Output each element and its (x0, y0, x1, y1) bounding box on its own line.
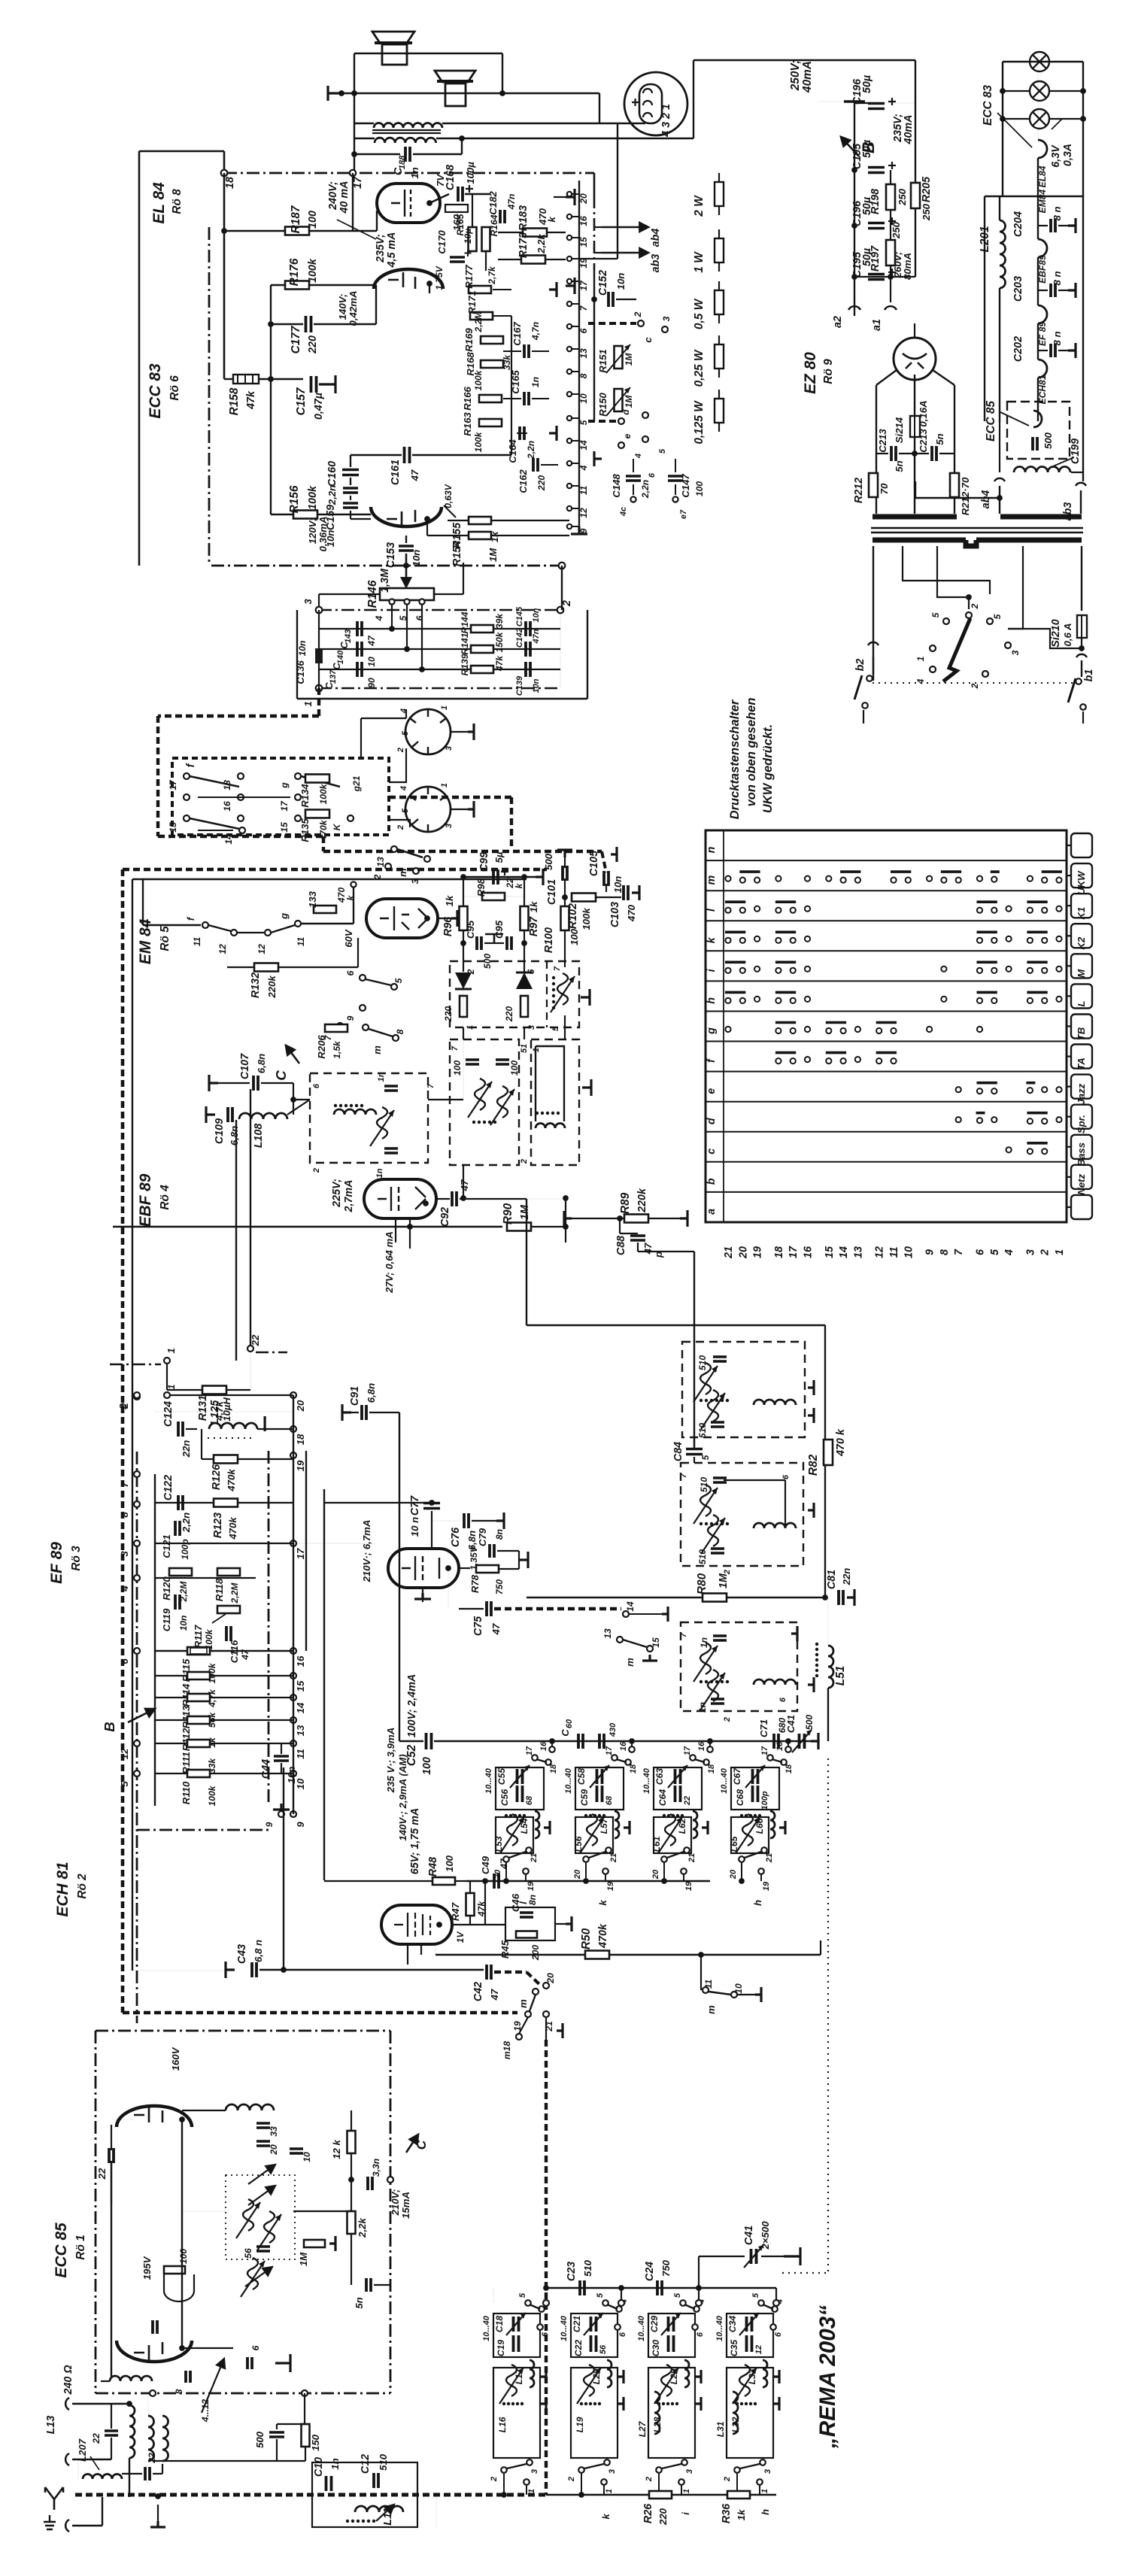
svg-text:13: 13 (295, 1725, 306, 1736)
svg-text:22n: 22n (181, 1440, 192, 1458)
svg-text:h: h (706, 997, 718, 1004)
capacitor C177 220 (306, 316, 311, 332)
wire (167, 1389, 202, 1391)
svg-text:m18: m18 (502, 2041, 512, 2059)
wire (354, 53, 502, 54)
wire (211, 1773, 293, 1774)
wire (1049, 90, 1083, 92)
resistor R126 470k (214, 1455, 238, 1464)
contact i19 (754, 966, 760, 972)
svg-text:195V: 195V (141, 2256, 153, 2280)
contact 2 (134, 1392, 140, 1398)
contact 4 selector (930, 666, 936, 672)
trimmer arrow (245, 2267, 272, 2286)
svg-text:100: 100 (178, 2249, 189, 2264)
svg-text:13: 13 (578, 348, 589, 359)
ground (414, 1593, 431, 1599)
box oscillator lower L62 (654, 1817, 691, 1853)
node (351, 151, 357, 157)
pin stub (569, 417, 579, 419)
svg-text:Drucktastenschalter: Drucktastenschalter (728, 699, 742, 819)
selector lever (943, 618, 970, 681)
svg-text:14: 14 (578, 440, 589, 451)
svg-text:Rö 3: Rö 3 (70, 1546, 83, 1571)
svg-text:220: 220 (443, 1006, 454, 1022)
tube socket 4321 (624, 72, 687, 135)
capacitor grid b (153, 2320, 157, 2334)
wire dashed gang right (545, 2040, 548, 2495)
box discriminator left (450, 1039, 519, 1165)
svg-text:UKW: UKW (1076, 870, 1087, 895)
ground (468, 801, 474, 818)
arrow C down (286, 1045, 299, 1063)
capacitor C84 (686, 1449, 703, 1455)
switch lever (763, 2304, 773, 2309)
inductor ratio coil upper (557, 973, 568, 1005)
contact 9 (360, 1005, 366, 1011)
svg-text:R164: R164 (489, 214, 499, 236)
switch lever (709, 1992, 731, 1995)
svg-text:10: 10 (302, 2152, 312, 2162)
inductor L125 10uH (209, 1423, 257, 1429)
svg-text:1n: 1n (699, 1637, 709, 1648)
wire bottom bus (75, 2493, 546, 2497)
inductor FM IF 2a (700, 1485, 711, 1516)
svg-text:250: 250 (921, 203, 932, 221)
svg-text:14: 14 (295, 1702, 306, 1713)
contact 4 b2 (618, 2300, 624, 2306)
svg-text:100p: 100p (760, 1791, 769, 1810)
switch lever (366, 979, 391, 985)
svg-text:39k: 39k (494, 613, 505, 629)
capacitor C204 8n (1051, 219, 1055, 232)
svg-text:21: 21 (723, 1246, 735, 1259)
contact 5b selector (987, 618, 993, 624)
wire to FM IF (693, 1252, 695, 1448)
svg-text:10...40: 10...40 (482, 2315, 491, 2341)
svg-text:140V·; 2,9mA (AM): 140V·; 2,9mA (AM) (397, 1754, 408, 1840)
ground (226, 1962, 235, 1978)
svg-text:20: 20 (737, 1246, 749, 1259)
contact 2m (385, 863, 391, 869)
svg-text:K: K (332, 823, 342, 830)
matrix row line (706, 1041, 1067, 1042)
svg-text:K2: K2 (1076, 936, 1087, 950)
wire (463, 1165, 464, 1198)
svg-text:R45: R45 (499, 1940, 511, 1959)
svg-text:i: i (680, 2512, 691, 2515)
contact 5 (680, 2300, 686, 2306)
resistor 150 (302, 2424, 310, 2447)
capacitor C67 (753, 1769, 758, 1784)
wire (459, 1608, 484, 1610)
svg-text:C124: C124 (162, 1401, 175, 1427)
wire stub (741, 1862, 742, 1881)
svg-text:40mA: 40mA (903, 115, 915, 145)
capacitor C41 2x500 (751, 2249, 757, 2264)
svg-text:C29: C29 (649, 2316, 660, 2332)
contact l3-2 (1027, 908, 1033, 913)
svg-text:47: 47 (499, 1858, 509, 1870)
wire (1082, 712, 1084, 724)
wire (389, 796, 511, 799)
wire (596, 897, 621, 898)
wire (890, 265, 891, 277)
contact 4 b3 (696, 2300, 702, 2306)
contact c3-2 (1027, 1148, 1033, 1154)
svg-text:100k: 100k (581, 908, 592, 930)
inductor L61 (665, 1814, 675, 1846)
coupling dots (700, 1680, 703, 1683)
svg-text:R173: R173 (517, 232, 530, 258)
svg-text:4...12: 4...12 (200, 2399, 211, 2423)
wire (350, 511, 351, 519)
resistor R154 1M (469, 532, 491, 539)
resistor R36 1k (727, 2491, 750, 2499)
svg-text:L31: L31 (715, 2421, 726, 2437)
svg-text:4: 4 (119, 1585, 130, 1592)
contact 18 (703, 1759, 709, 1765)
label box tick (1067, 845, 1071, 846)
svg-text:220k: 220k (636, 1188, 648, 1213)
contact tap 4 (389, 599, 394, 604)
wire (167, 1394, 293, 1396)
wire (939, 453, 954, 454)
leader (1000, 412, 1029, 426)
wire module border right (268, 1451, 270, 1806)
contact i8 (941, 966, 946, 972)
svg-text:2,2k: 2,2k (357, 2218, 368, 2238)
box divider (546, 961, 548, 1027)
contact k3-2 (1027, 938, 1033, 943)
plus (888, 217, 896, 225)
svg-text:a1: a1 (871, 319, 883, 331)
contact mains a (866, 675, 873, 681)
svg-text:6: 6 (975, 1249, 987, 1255)
svg-text:56: 56 (243, 2248, 253, 2259)
wire (452, 1924, 485, 1925)
svg-text:5: 5 (596, 2292, 605, 2298)
pin stub (569, 526, 579, 527)
contact h6-5 (977, 998, 982, 1003)
ground (1068, 218, 1076, 233)
wire (376, 211, 378, 231)
wire (737, 1994, 755, 1995)
svg-text:5: 5 (518, 2292, 527, 2298)
svg-text:C67: C67 (732, 1767, 742, 1785)
svg-text:Rö 8: Rö 8 (171, 189, 184, 214)
svg-text:100p: 100p (180, 1539, 190, 1560)
svg-text:150: 150 (310, 2434, 321, 2451)
svg-text:C63: C63 (654, 1768, 665, 1785)
svg-text:C99: C99 (478, 852, 490, 872)
wire (277, 2423, 305, 2425)
wire AVC 2 (527, 1597, 825, 1598)
wire (1080, 490, 1082, 514)
svg-text:15: 15 (279, 822, 290, 833)
contact (557, 607, 564, 614)
wire (564, 1015, 566, 1039)
coupling dots (552, 976, 555, 979)
leader (212, 1614, 226, 1623)
contact 1 (757, 2479, 763, 2485)
tube 4321 inner (639, 84, 662, 123)
wire (541, 464, 558, 466)
svg-text:20: 20 (651, 1869, 660, 1880)
svg-text:1: 1 (166, 1384, 177, 1389)
capacitor C137 (357, 662, 362, 677)
wire (111, 2161, 112, 2377)
inductor bumps (536, 1124, 565, 1128)
wire (351, 2153, 352, 2211)
resistor 100 (164, 2266, 185, 2274)
svg-text:240 Ω: 240 Ω (62, 2365, 74, 2395)
wire row (319, 648, 560, 650)
capacitor C12 510 (374, 2473, 378, 2488)
contact pin 17 (567, 279, 572, 284)
svg-text:137: 137 (329, 669, 338, 684)
wire (462, 138, 693, 139)
capacitor C122 2,2n (178, 1495, 183, 1510)
contact m13 (391, 846, 397, 852)
wire stub (709, 1741, 711, 1746)
contact e7 (672, 496, 678, 502)
wire (412, 454, 511, 456)
label box row g (1071, 1015, 1092, 1039)
wire (314, 323, 376, 325)
capacitor C68 (753, 1786, 758, 1802)
svg-text:TB: TB (1076, 1027, 1087, 1040)
tube ECC83b electrodes (387, 510, 415, 526)
svg-text:22: 22 (147, 2453, 157, 2464)
wire FM box right (390, 2031, 392, 2393)
capacitor C159b (343, 503, 358, 508)
wire (532, 350, 549, 352)
speaker LS2 (435, 71, 475, 106)
wire (281, 1763, 282, 1773)
heater ECC85 (1033, 411, 1042, 427)
inductor L28 (661, 2365, 672, 2396)
wire (999, 196, 1000, 220)
inductor L17 (530, 2360, 534, 2387)
contact 9 (290, 1811, 296, 1817)
diode D2 (516, 972, 533, 989)
svg-text:0,47µ: 0,47µ (313, 393, 325, 420)
pin stub (569, 326, 579, 327)
capacitor C34 (747, 2317, 752, 2332)
svg-text:0,125 W: 0,125 W (693, 400, 706, 445)
wire (724, 1479, 785, 1481)
contact 6 (692, 2324, 698, 2330)
box ratio detector diodes (450, 961, 579, 1027)
svg-text:1: 1 (1054, 1249, 1066, 1255)
label box tick (1067, 965, 1071, 966)
svg-text:20: 20 (545, 1973, 556, 1984)
contact 5 (134, 1770, 140, 1776)
svg-text:6,8n: 6,8n (366, 1383, 377, 1403)
capacitor C91 6,8n (362, 1405, 366, 1420)
wire (1038, 290, 1048, 291)
contact h18-17 (775, 998, 781, 1003)
svg-text:40 mA: 40 mA (338, 181, 351, 214)
wire (461, 876, 536, 878)
svg-text:R120: R120 (161, 1576, 172, 1601)
svg-text:7: 7 (679, 1632, 688, 1637)
svg-text:100k: 100k (307, 485, 319, 510)
label box tick (1067, 1025, 1071, 1027)
node (785, 1738, 791, 1744)
svg-text:220: 220 (657, 2508, 669, 2526)
svg-text:R177: R177 (463, 265, 475, 289)
wire (593, 271, 595, 323)
svg-text:R134: R134 (299, 784, 311, 808)
box band filter b1 (493, 2314, 540, 2357)
trimmer arrow L11 (376, 2505, 394, 2521)
inductor input (110, 2376, 152, 2381)
coupling dots (505, 1814, 508, 1817)
svg-text:3: 3 (445, 824, 454, 828)
contact 12b (265, 930, 271, 936)
capacitor C58 (597, 1769, 602, 1784)
contact d1 (1056, 1117, 1061, 1122)
wire dash-dot stub (110, 1364, 161, 1366)
svg-text:ECC 85: ECC 85 (985, 401, 997, 441)
wire (278, 966, 358, 968)
capacitor 8 (186, 2371, 190, 2383)
node (126, 2401, 132, 2407)
svg-text:120V;: 120V; (307, 518, 318, 545)
wire filter outer bottom (297, 698, 587, 699)
wire (505, 896, 524, 897)
svg-text:3: 3 (527, 1025, 536, 1030)
capacitor C88 47 (630, 1236, 645, 1240)
switch lever (694, 1759, 705, 1762)
capacitor C153 10n (399, 546, 414, 551)
inductor L31 (733, 2392, 738, 2434)
svg-text:R118: R118 (214, 1578, 225, 1601)
svg-text:L207: L207 (77, 2438, 88, 2462)
capacitor C99 5u (493, 869, 498, 884)
svg-text:5: 5 (930, 612, 941, 617)
svg-text:10...40: 10...40 (484, 1767, 493, 1794)
resistor R97 1k (520, 906, 529, 930)
ground (808, 1380, 814, 1395)
wire stub (526, 2485, 527, 2495)
svg-text:47n: 47n (506, 194, 517, 211)
contact f15-14 (826, 1058, 831, 1063)
wire (675, 459, 676, 472)
wire ladder right bus (293, 1395, 294, 1814)
resistor R183 470k (523, 229, 547, 237)
node (739, 1878, 745, 1884)
contact m (424, 856, 430, 862)
svg-text:16: 16 (803, 1246, 815, 1258)
svg-text:C46: C46 (510, 1893, 521, 1912)
wire osc bus (434, 1740, 811, 1742)
svg-text:5: 5 (578, 420, 589, 425)
svg-text:C30: C30 (651, 2340, 661, 2356)
wire (305, 2447, 306, 2461)
svg-text:10n: 10n (178, 1616, 189, 1631)
wire stub (585, 1862, 587, 1881)
contact pin 7 (567, 302, 572, 306)
wire (493, 2288, 494, 2303)
resistor R102 100k (572, 894, 596, 902)
wire (143, 924, 201, 926)
wire (876, 370, 897, 385)
capacitor C139 10n (526, 662, 530, 677)
svg-text:ab4: ab4 (980, 490, 992, 509)
svg-text:5: 5 (401, 808, 410, 813)
svg-text:C161: C161 (390, 460, 402, 485)
wire (182, 2110, 226, 2111)
svg-text:7: 7 (953, 1249, 965, 1255)
svg-text:2: 2 (520, 1159, 529, 1164)
svg-text:8: 8 (119, 1512, 130, 1518)
svg-text:15: 15 (651, 1637, 661, 1648)
resistor R131 4,7k (202, 1386, 226, 1394)
capacitor 510 b (711, 1422, 724, 1427)
svg-text:R36: R36 (721, 2503, 733, 2523)
svg-text:10µ: 10µ (463, 229, 473, 244)
tube EL84 Ro8 (377, 184, 440, 223)
resistor R206 1,5k (325, 1024, 347, 1032)
svg-text:1: 1 (915, 656, 926, 661)
capacitor C159 10n (343, 488, 358, 493)
svg-text:ECC 85: ECC 85 (53, 2223, 70, 2278)
wire (427, 535, 469, 536)
capacitor C64 (675, 1786, 681, 1802)
svg-text:18: 18 (707, 1764, 716, 1773)
svg-text:Jazz: Jazz (1076, 1083, 1087, 1104)
svg-text:6: 6 (119, 1658, 130, 1664)
wire (281, 1743, 282, 1754)
svg-text:250V;: 250V; (789, 60, 802, 92)
wire (354, 153, 400, 155)
resistor 2,2k (347, 2211, 356, 2234)
node (563, 1195, 569, 1201)
svg-text:6: 6 (648, 472, 657, 478)
wire (305, 1451, 307, 1651)
capacitor C213 5n (891, 446, 896, 461)
capacitor C103 470 (624, 885, 628, 900)
svg-text:Rö 4: Rö 4 (159, 1185, 171, 1210)
svg-text:0,6 A: 0,6 A (1062, 623, 1073, 646)
contact 20b (543, 1983, 549, 1989)
wire (111, 2161, 112, 2204)
svg-text:3: 3 (445, 746, 454, 751)
ground (1068, 283, 1076, 298)
contact pin 5 (567, 416, 572, 420)
wire (155, 1675, 187, 1676)
contact m2-1 (1042, 878, 1047, 883)
svg-text:10...40: 10...40 (560, 2315, 569, 2341)
svg-text:510: 510 (699, 1477, 709, 1492)
contact l19 (754, 906, 760, 912)
capacitor 510 a (713, 1357, 727, 1361)
wire (132, 1970, 235, 1971)
ground (611, 847, 617, 862)
svg-text:16: 16 (775, 1741, 785, 1751)
capacitor C24 750 (657, 2280, 662, 2295)
svg-text:R144: R144 (460, 611, 470, 633)
svg-text:13: 13 (852, 1246, 864, 1258)
svg-text:500: 500 (254, 2431, 266, 2448)
capacitor 22 c (145, 2467, 150, 2480)
resistor R100 100 (561, 906, 569, 930)
wire (524, 877, 525, 906)
contact m11-10 (891, 878, 896, 883)
